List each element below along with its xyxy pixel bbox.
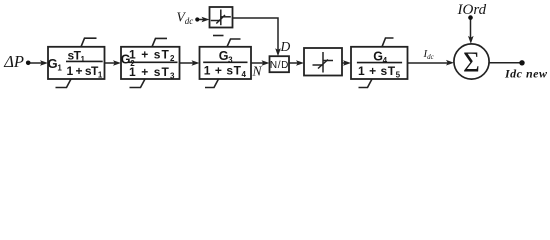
- svg-text:1 + sT3: 1 + sT3: [129, 65, 175, 81]
- svg-text:N: N: [252, 64, 263, 79]
- svg-text:1 + sT5: 1 + sT5: [358, 64, 401, 80]
- svg-text:Σ: Σ: [463, 46, 480, 78]
- svg-text:ΔP: ΔP: [3, 52, 24, 71]
- svg-text:1 + sT2: 1 + sT2: [129, 47, 175, 63]
- svg-text:1 + sT1: 1 + sT1: [67, 64, 103, 80]
- svg-text:D: D: [280, 39, 291, 54]
- svg-text:1 + sT4: 1 + sT4: [204, 64, 247, 80]
- svg-text:N/D: N/D: [270, 60, 289, 71]
- svg-text:Idc new: Idc new: [504, 67, 548, 81]
- svg-text:IOrd: IOrd: [457, 2, 487, 18]
